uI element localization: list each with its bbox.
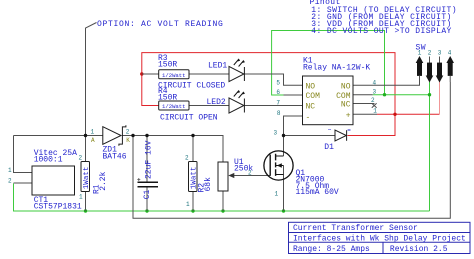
diode ZD1 BAT46 [103, 127, 121, 145]
SW pin1 arrow up [416, 56, 424, 63]
node junction Q1 drain [282, 134, 285, 137]
node junction rail R2 [191, 134, 194, 137]
svg-text:Relay NA-12W-K: Relay NA-12W-K [303, 64, 370, 73]
svg-text:NO: NO [306, 83, 316, 92]
resistor R3 150R [159, 70, 189, 79]
svg-text:K: K [126, 137, 130, 144]
svg-text:COM: COM [306, 92, 321, 101]
SW pin4 arrow up [446, 56, 454, 63]
svg-text:2: 2 [428, 50, 432, 57]
svg-text:150R: 150R [158, 93, 177, 102]
wire DC rail left [14, 135, 104, 137]
wire relay pin6 stub [284, 94, 303, 96]
wiper arrowhead [228, 173, 234, 178]
svg-text:3: 3 [274, 129, 278, 136]
wire R1 top [85, 136, 87, 162]
wire R2 top [192, 136, 194, 162]
svg-text:A: A [91, 137, 95, 144]
svg-text:68k: 68k [204, 177, 213, 192]
wire red net VDD top loop to R3 R4 [142, 53, 395, 136]
wire CT1 pin2 stub [14, 182, 33, 184]
transistor Q1 2N7000 [264, 151, 293, 180]
SW pin2 arrow down [429, 57, 431, 64]
svg-text:NO: NO [341, 82, 351, 91]
svg-text:1: 1 [91, 128, 95, 135]
svg-text:2: 2 [248, 169, 252, 176]
node green junction R2 bottom [191, 209, 194, 212]
svg-text:1: 1 [8, 167, 12, 174]
svg-text:CIRCUIT CLOSED: CIRCUIT CLOSED [158, 82, 225, 91]
svg-text:1Watt: 1Watt [83, 167, 91, 190]
svg-text:2.2k: 2.2k [99, 171, 108, 190]
wire R3 to LED1 [189, 73, 229, 75]
svg-text:4: 4 [448, 50, 452, 57]
LED1 [229, 66, 244, 81]
svg-text:Interfaces with Wk Shp Delay P: Interfaces with Wk Shp Delay Project [293, 235, 466, 244]
wire LED2 to relay pin7 [244, 105, 302, 107]
wire Q1 drain [283, 136, 285, 157]
LED2 [229, 98, 244, 113]
svg-text:Range: 8-25 Amps: Range: 8-25 Amps [293, 245, 370, 254]
wire green SW pin2 vertical [429, 82, 431, 211]
wire Q1 drain to D1 anode [284, 135, 335, 137]
svg-text:C1: C1 [143, 189, 152, 199]
resistor R1 2.2k [81, 162, 90, 192]
svg-text:7: 7 [276, 99, 280, 106]
svg-text:150R: 150R [158, 60, 177, 69]
wire pink SW pin3 vertical [439, 80, 441, 114]
node green junction R1 bottom [84, 209, 87, 212]
diode D1 [335, 130, 346, 141]
svg-text:D1: D1 [324, 143, 334, 152]
svg-text:3: 3 [438, 50, 442, 57]
wire DC volts out to SW pin4 [133, 82, 450, 218]
svg-text:3: 3 [373, 88, 377, 95]
svg-text:1: 1 [418, 50, 422, 57]
wire R1 bottom [85, 192, 87, 212]
svg-text:1: 1 [79, 193, 83, 200]
svg-text:115mA 60V: 115mA 60V [296, 188, 339, 197]
svg-text:2: 2 [8, 177, 12, 184]
node green junction Q1 source [282, 209, 285, 212]
node junction rail DC out [131, 134, 134, 137]
svg-text:2: 2 [79, 154, 83, 161]
relay K1 [303, 76, 354, 125]
svg-text:+: + [346, 111, 351, 120]
wire green pin3 to SW pin2 [373, 94, 430, 96]
wire relay pin3 stub [353, 94, 373, 96]
svg-text:4: 4 [373, 79, 377, 86]
node green junction U1 bottom [221, 209, 224, 212]
svg-text:Revision 2.5: Revision 2.5 [390, 245, 448, 254]
svg-text:LED2: LED2 [207, 98, 226, 107]
node green junction C1 bottom [145, 209, 148, 212]
node green junction pin3 [383, 93, 386, 96]
svg-text:CST57P1831: CST57P1831 [34, 202, 82, 211]
wire Q1 source [283, 166, 285, 212]
svg-text:2: 2 [185, 155, 189, 162]
transformer CT1 [32, 166, 75, 195]
svg-text:22uF 16V: 22uF 16V [145, 140, 154, 179]
svg-text:5: 5 [276, 79, 280, 86]
svg-text:1/2Watt: 1/2Watt [162, 103, 186, 110]
wire DC rail mid to pot [123, 136, 224, 163]
wire relay pin8 to Q1 drain [284, 116, 303, 136]
svg-text:Current Transformer Sensor: Current Transformer Sensor [293, 224, 418, 233]
svg-text:OPTION: AC VOLT READING: OPTION: AC VOLT READING [97, 20, 224, 29]
node green junction SW pin2 [428, 93, 431, 96]
no-connect X on pin2 [372, 103, 377, 108]
svg-text:-: - [306, 114, 311, 123]
node junction rail R1 [84, 134, 87, 137]
wire R4 to LED2 [189, 105, 229, 107]
svg-text:1: 1 [275, 191, 279, 198]
svg-text:CIRCUIT OPEN: CIRCUIT OPEN [160, 113, 218, 122]
svg-text:NC: NC [306, 102, 316, 111]
svg-text:=: = [347, 127, 351, 134]
resistor R2 68k [189, 162, 198, 192]
potentiometer U1 250k [218, 162, 228, 191]
wire OPTION AC volt riser [86, 23, 97, 136]
svg-text:1/2Watt: 1/2Watt [162, 72, 186, 79]
resistor R4 150R [159, 101, 189, 110]
title block [289, 222, 471, 253]
svg-text:4: DC VOLTS OUT >TO DISPLAY: 4: DC VOLTS OUT >TO DISPLAY [311, 27, 451, 36]
wire relay pin4 to SW pin1 [353, 77, 420, 86]
node red junction R3 left [140, 72, 143, 75]
svg-text:COM: COM [336, 92, 351, 101]
wire green COM loop [272, 31, 385, 96]
SW pin3 arrow down [439, 57, 441, 64]
svg-text:LED1: LED1 [208, 61, 227, 70]
svg-text:~: ~ [328, 127, 332, 134]
svg-text:2: 2 [371, 97, 375, 104]
node junction rail C1 [145, 134, 148, 137]
wire R3 left [142, 73, 159, 75]
wire U1 bottom [222, 191, 224, 211]
svg-text:1: 1 [186, 201, 190, 208]
svg-text:1: 1 [373, 108, 377, 115]
wire C1 bottom [146, 187, 148, 211]
wire relay pin2 stub [353, 103, 375, 105]
wire red relay plus to pin3 leg [377, 113, 440, 115]
capacitor C1 22uF 16V [138, 181, 159, 183]
wire relay pin1 stub [353, 113, 377, 115]
svg-text:6: 6 [276, 89, 280, 96]
wire green ground rail [14, 184, 430, 212]
wire LED1 to relay pin5 [244, 74, 302, 85]
svg-text:NC: NC [341, 101, 351, 110]
wire U1 wiper to Q1 gate [231, 175, 271, 177]
wire C1 top [146, 136, 148, 183]
wire R2 bottom [192, 192, 194, 212]
svg-text:1000:1: 1000:1 [34, 155, 63, 164]
node red junction relay plus [393, 113, 396, 116]
svg-text:2: 2 [126, 128, 130, 135]
svg-text:BAT46: BAT46 [103, 152, 127, 161]
wire CT1 pin1 riser [14, 136, 33, 173]
svg-text:8: 8 [277, 110, 281, 117]
